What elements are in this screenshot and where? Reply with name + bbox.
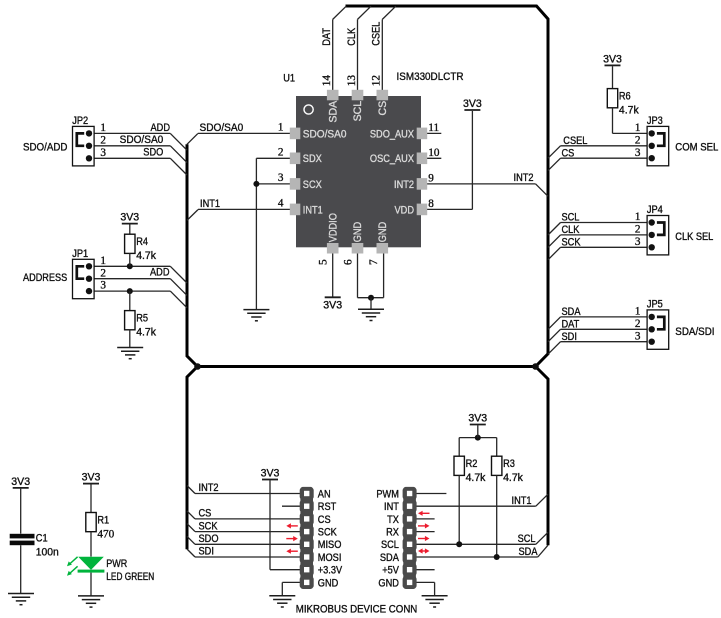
svg-text:5: 5 xyxy=(318,259,330,265)
svg-text:SDA: SDA xyxy=(519,546,539,558)
svg-text:CSEL: CSEL xyxy=(371,22,383,46)
svg-text:VDD: VDD xyxy=(395,204,415,216)
svg-text:SCK: SCK xyxy=(562,236,581,248)
svg-text:1: 1 xyxy=(100,122,106,134)
svg-text:ISM330DLCTR: ISM330DLCTR xyxy=(397,71,464,83)
svg-text:MISO: MISO xyxy=(318,539,342,551)
svg-text:6: 6 xyxy=(342,259,354,265)
svg-text:3: 3 xyxy=(635,330,641,342)
svg-text:14: 14 xyxy=(321,75,333,87)
svg-text:PWR: PWR xyxy=(106,558,127,570)
svg-text:13: 13 xyxy=(346,75,358,87)
svg-text:LED GREEN: LED GREEN xyxy=(106,571,154,583)
svg-text:SCK: SCK xyxy=(318,527,337,539)
svg-text:9: 9 xyxy=(428,173,434,185)
svg-text:8: 8 xyxy=(428,198,434,210)
svg-text:11: 11 xyxy=(428,122,439,134)
svg-text:JP4: JP4 xyxy=(647,204,663,216)
svg-text:+3.3V: +3.3V xyxy=(318,565,343,577)
svg-text:3: 3 xyxy=(100,280,106,292)
svg-text:CLK: CLK xyxy=(562,224,580,236)
svg-text:CLK SEL: CLK SEL xyxy=(675,231,713,243)
svg-text:R6: R6 xyxy=(619,91,631,103)
svg-text:GND: GND xyxy=(378,577,399,589)
svg-text:1: 1 xyxy=(100,255,106,267)
svg-text:SDO_AUX: SDO_AUX xyxy=(370,128,414,140)
svg-text:VDDIO: VDDIO xyxy=(327,213,339,242)
svg-text:CSEL: CSEL xyxy=(563,135,587,147)
svg-text:AN: AN xyxy=(318,488,331,500)
svg-text:SDI: SDI xyxy=(562,331,577,343)
svg-text:3V3: 3V3 xyxy=(82,472,101,484)
svg-text:R3: R3 xyxy=(503,458,515,470)
svg-text:SCK: SCK xyxy=(199,520,218,532)
svg-text:CS: CS xyxy=(377,101,389,116)
svg-text:SDO/ADD: SDO/ADD xyxy=(23,141,68,153)
svg-text:PWM: PWM xyxy=(376,488,399,500)
svg-text:SDO/SA0: SDO/SA0 xyxy=(200,122,244,134)
svg-text:RST: RST xyxy=(318,501,337,513)
svg-text:ADDRESS: ADDRESS xyxy=(23,272,67,284)
svg-text:2: 2 xyxy=(100,267,106,279)
svg-text:SDA: SDA xyxy=(562,306,582,318)
svg-text:1: 1 xyxy=(635,306,641,318)
svg-text:CS: CS xyxy=(562,147,575,159)
svg-text:10: 10 xyxy=(428,147,440,159)
svg-text:+5V: +5V xyxy=(382,565,400,577)
svg-text:1: 1 xyxy=(635,211,641,223)
svg-text:COM SEL: COM SEL xyxy=(675,142,718,154)
svg-text:SCL: SCL xyxy=(562,212,580,224)
svg-text:4.7k: 4.7k xyxy=(503,472,523,484)
svg-text:TX: TX xyxy=(387,514,399,526)
svg-text:2: 2 xyxy=(100,134,106,146)
svg-text:JP5: JP5 xyxy=(647,299,663,311)
svg-text:3: 3 xyxy=(278,172,284,184)
svg-text:4: 4 xyxy=(278,198,284,210)
svg-text:SDO/SA0: SDO/SA0 xyxy=(120,134,164,146)
svg-text:R2: R2 xyxy=(466,458,478,470)
svg-text:3V3: 3V3 xyxy=(323,300,342,312)
svg-text:1: 1 xyxy=(278,122,284,134)
svg-text:3V3: 3V3 xyxy=(603,53,622,65)
svg-text:CS: CS xyxy=(318,514,331,526)
svg-text:JP2: JP2 xyxy=(72,115,88,127)
svg-text:INT: INT xyxy=(384,501,399,513)
svg-text:SDI: SDI xyxy=(199,546,214,558)
svg-text:2: 2 xyxy=(635,318,641,330)
svg-text:3V3: 3V3 xyxy=(11,476,30,488)
svg-text:4.7k: 4.7k xyxy=(619,104,639,116)
svg-text:R5: R5 xyxy=(136,313,148,325)
svg-text:12: 12 xyxy=(371,75,383,86)
svg-text:U1: U1 xyxy=(283,73,295,85)
svg-text:2: 2 xyxy=(635,134,641,146)
svg-text:OSC_AUX: OSC_AUX xyxy=(370,153,414,165)
svg-text:JP3: JP3 xyxy=(647,115,663,127)
svg-text:DAT: DAT xyxy=(321,28,333,46)
svg-text:MIKROBUS DEVICE CONN: MIKROBUS DEVICE CONN xyxy=(296,603,418,615)
svg-text:R4: R4 xyxy=(136,236,148,248)
svg-text:MOSI: MOSI xyxy=(318,552,342,564)
svg-text:3V3: 3V3 xyxy=(463,98,482,110)
svg-text:SDO: SDO xyxy=(199,533,219,545)
svg-text:SDO/SA0: SDO/SA0 xyxy=(303,128,347,140)
svg-text:INT1: INT1 xyxy=(200,198,220,210)
svg-text:100n: 100n xyxy=(36,547,59,559)
svg-text:INT2: INT2 xyxy=(199,482,219,494)
svg-text:C1: C1 xyxy=(36,533,48,545)
svg-text:SCL: SCL xyxy=(352,101,364,122)
svg-text:3: 3 xyxy=(635,147,641,159)
svg-text:SDO: SDO xyxy=(143,147,163,159)
svg-text:SCL: SCL xyxy=(381,539,399,551)
svg-text:SDA: SDA xyxy=(327,100,339,123)
svg-text:ADD: ADD xyxy=(150,267,170,279)
svg-text:SDA: SDA xyxy=(380,552,400,564)
svg-text:3: 3 xyxy=(100,147,106,159)
svg-text:JP1: JP1 xyxy=(72,248,88,260)
svg-text:7: 7 xyxy=(368,259,380,265)
svg-text:2: 2 xyxy=(278,147,284,159)
svg-text:GND: GND xyxy=(377,222,389,243)
svg-text:3V3: 3V3 xyxy=(261,468,280,480)
svg-text:4.7k: 4.7k xyxy=(466,472,486,484)
svg-text:4.7k: 4.7k xyxy=(136,250,156,262)
svg-text:SCL: SCL xyxy=(518,533,536,545)
svg-text:3V3: 3V3 xyxy=(468,413,487,425)
svg-text:RX: RX xyxy=(386,527,399,539)
svg-text:SCX: SCX xyxy=(303,179,322,191)
svg-text:INT1: INT1 xyxy=(512,495,532,507)
svg-text:CS: CS xyxy=(199,508,212,520)
svg-text:SDA/SDI: SDA/SDI xyxy=(675,326,714,338)
svg-text:DAT: DAT xyxy=(562,318,580,330)
svg-text:INT1: INT1 xyxy=(303,204,323,216)
svg-text:2: 2 xyxy=(635,224,641,236)
svg-text:470: 470 xyxy=(97,528,114,540)
svg-text:GND: GND xyxy=(318,577,339,589)
svg-text:SDX: SDX xyxy=(303,153,322,165)
svg-text:R1: R1 xyxy=(97,515,109,527)
svg-text:INT2: INT2 xyxy=(394,179,414,191)
svg-text:ADD: ADD xyxy=(151,122,171,134)
svg-text:3V3: 3V3 xyxy=(120,212,139,224)
svg-text:4.7k: 4.7k xyxy=(136,326,156,338)
svg-text:GND: GND xyxy=(352,222,364,243)
svg-text:1: 1 xyxy=(635,122,641,134)
svg-text:CLK: CLK xyxy=(346,28,358,46)
svg-text:INT2: INT2 xyxy=(514,172,534,184)
svg-text:3: 3 xyxy=(635,236,641,248)
